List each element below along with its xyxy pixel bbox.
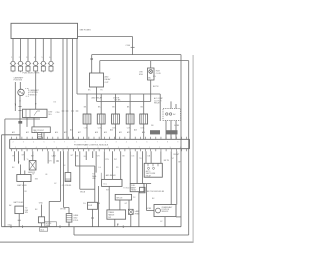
svg-text:1: 1 [149, 147, 150, 149]
wire D1 drop 2 [170, 121, 172, 140]
svg-text:6: 6 [147, 142, 148, 144]
svg-text:A23: A23 [134, 129, 137, 132]
wire coil 4 to PCM strip [129, 124, 131, 139]
wire B10 to B16 [119, 200, 121, 210]
svg-text:6: 6 [54, 142, 55, 144]
wire pin drop x176 [176, 151, 178, 204]
wire B1 output vertical drop [132, 37, 134, 55]
wire resistor feed jog [64, 207, 69, 209]
wire B13 bottom drop [164, 217, 166, 227]
wire coil 1 feed drop [86, 94, 88, 114]
wire B1 right output horizontal [78, 36, 133, 38]
wire pin drop x120 [120, 151, 122, 179]
pin label box dark 1 [150, 130, 160, 134]
svg-text:3: 3 [98, 147, 99, 149]
svg-text:9: 9 [177, 142, 178, 144]
EGR solenoid box B7 [88, 202, 98, 209]
wire into B13 left [147, 210, 155, 212]
distributor assembly B3 [23, 109, 48, 117]
bus tick 2 [22, 225, 24, 228]
powertrain control module connector strip [10, 139, 190, 148]
wire L2 horizontal bus [100, 60, 189, 62]
wire injector 3 feed [27, 38, 29, 61]
svg-text:GY/BK: GY/BK [174, 125, 180, 127]
svg-text:7: 7 [139, 147, 140, 149]
svg-text:1: 1 [95, 142, 96, 144]
wire coil 5 to PCM strip [143, 124, 145, 139]
wire horizontal y183 right [143, 183, 151, 185]
junction box B6 [38, 217, 44, 223]
wire pin drop x18 with arrow [18, 151, 20, 163]
wire pin drop x79 corner [79, 151, 81, 189]
wire sensor z1 feed [32, 151, 34, 160]
svg-text:YL: YL [27, 159, 29, 161]
svg-text:2: 2 [159, 147, 160, 149]
wire B15 bottom drop [23, 182, 25, 207]
svg-text:5: 5 [44, 142, 45, 144]
svg-text:FUEL: FUEL [131, 185, 135, 187]
svg-text:A12: A12 [26, 131, 29, 134]
wire B1 pin to PCM strip 1 [62, 38, 64, 139]
wire z2 feed [67, 151, 69, 172]
svg-text:6: 6 [128, 147, 129, 149]
wire corner drop x49 to bus [48, 201, 50, 226]
svg-text:GY/BK: GY/BK [146, 208, 152, 210]
svg-text:BK/TN: BK/TN [153, 86, 159, 88]
check engine lamp U2 [148, 68, 155, 80]
wire B4 to strip [43, 133, 45, 140]
wire left border junction horizontal [5, 118, 40, 120]
svg-text:A2: A2 [9, 204, 11, 207]
lower return line [74, 234, 189, 236]
connector tick B5 wire [18, 219, 21, 221]
wire sensor feed top [19, 82, 21, 89]
wire drop x94 to B7 [94, 166, 96, 202]
svg-text:RELAY: RELAY [105, 78, 112, 81]
svg-text:SW: SW [108, 217, 111, 219]
wire relay feed 1 [145, 151, 147, 163]
svg-text:SW: SW [25, 212, 28, 214]
wire injector 4 feed [35, 38, 37, 61]
camshaft position sensor G1 [18, 89, 24, 95]
svg-text:A22: A22 [127, 131, 130, 134]
svg-text:2: 2 [15, 147, 16, 149]
svg-text:C110: C110 [56, 112, 60, 114]
wire pin drop x130 [129, 151, 131, 183]
wire pin drop x92 [92, 151, 94, 158]
junction box B12 [140, 187, 146, 193]
svg-text:3: 3 [25, 147, 26, 149]
arrow at bus x117 [117, 224, 118, 227]
wire B17 bottom to bus [130, 214, 132, 226]
svg-text:7: 7 [64, 142, 65, 144]
wire horizontal y166 [75, 165, 94, 167]
wire pin drop x171 [170, 151, 172, 204]
fuel injector INJ2 [17, 57, 23, 71]
wire pin drop x137 [136, 151, 138, 183]
wire pin drop x60 long [60, 151, 62, 201]
wire lamp bottom drop [150, 80, 152, 101]
svg-text:7: 7 [157, 142, 158, 144]
wire B3 drop 2 [33, 118, 35, 127]
svg-text:8: 8 [167, 142, 168, 144]
svg-text:1: 1 [77, 147, 78, 149]
throttle position sensor Z1 [29, 161, 36, 171]
wire pin drop x48 to corner [47, 151, 49, 163]
svg-text:CLUS: CLUS [156, 73, 162, 75]
svg-text:4: 4 [34, 57, 35, 59]
svg-text:1: 1 [11, 57, 12, 59]
wire coil 1 to PCM strip [86, 124, 88, 139]
relay box B9 [130, 184, 144, 192]
map sensor box B15 [17, 175, 31, 182]
svg-text:4: 4 [36, 147, 37, 149]
dashed sensor boundary [25, 88, 28, 96]
oil pressure sensor Z2 [65, 173, 71, 182]
wire horizontal y189 [80, 188, 95, 190]
ignition module box B4 [32, 127, 50, 133]
PCM module box C1 [11, 23, 78, 38]
wire B1 pin to ASD feed node [76, 38, 78, 94]
wire injector 1 feed [12, 38, 14, 61]
wire B16 bottom to bus [114, 219, 116, 227]
wire pin drop x75 corner [74, 151, 76, 166]
wire relay feed 2 [150, 151, 152, 163]
svg-text:A14: A14 [55, 131, 58, 134]
svg-text:PPL: PPL [106, 159, 109, 161]
wire pin drop x14 [13, 151, 15, 161]
dashed connector D1 [163, 109, 181, 121]
connector tick sensor wire upper [19, 105, 22, 107]
svg-text:2: 2 [105, 142, 106, 144]
svg-text:9: 9 [85, 142, 86, 144]
wire D1 feed 2 [175, 104, 177, 109]
svg-text:PUMP: PUMP [131, 187, 136, 189]
svg-text:SENSOR: SENSOR [162, 211, 170, 213]
svg-text:A17: A17 [78, 131, 81, 134]
wire coil 3 feed drop [115, 94, 117, 114]
wire B1 pin to PCM strip 3 [72, 38, 74, 139]
svg-text:A18: A18 [95, 131, 98, 134]
svg-text:G101: G101 [40, 229, 44, 231]
svg-text:5: 5 [118, 147, 119, 149]
svg-text:ASD: ASD [105, 76, 110, 79]
wire B6 up stub [41, 205, 43, 217]
svg-text:OIL PRESS: OIL PRESS [62, 185, 72, 187]
ballast resistor R2 [38, 133, 42, 139]
svg-text:ENG: ENG [139, 74, 143, 76]
shift lamp B17 [128, 209, 133, 214]
svg-text:8: 8 [74, 142, 75, 144]
wire pin drop x24 sensor feed [23, 151, 25, 160]
wire B2 bottom drop [96, 87, 98, 101]
svg-text:BK PCM GROUND BK: BK PCM GROUND BK [147, 191, 165, 193]
fuel injector INJ1 [10, 57, 16, 71]
wire drop x146 lower [146, 184, 148, 211]
connector tick sensor wire [19, 110, 22, 112]
wire outer border horizontal [2, 134, 20, 136]
svg-text:GND: GND [39, 203, 44, 205]
wire B8 to B16 [108, 186, 110, 210]
svg-text:SENSOR: SENSOR [30, 94, 38, 96]
arrow sensor feed left [15, 104, 16, 106]
svg-text:A11: A11 [12, 131, 15, 134]
svg-text:SEE FUSES: SEE FUSES [80, 30, 92, 32]
fuel injector INJ4 [33, 57, 39, 71]
svg-text:POSITION: POSITION [162, 209, 170, 211]
ground bus line [2, 226, 181, 228]
wire sci return to bus [97, 186, 99, 227]
ignition coil T2 [97, 114, 105, 124]
svg-text:FUEL INJECTORS: FUEL INJECTORS [23, 73, 41, 75]
svg-text:A13: A13 [34, 131, 37, 134]
wire B13 to V1 [176, 216, 181, 218]
label text block bracket [92, 173, 101, 180]
splice S120 marks [91, 58, 93, 60]
transmission box B16 [107, 210, 126, 219]
pin label box dark 2 [166, 130, 178, 134]
injector bottom stubs [13, 71, 51, 72]
wire left inner border vertical [4, 119, 6, 227]
wire L3 coil feed bus [77, 93, 160, 95]
sensor ground resistor R1 [66, 214, 72, 223]
svg-text:5: 5 [42, 57, 43, 59]
fuel injector INJ3 [25, 57, 31, 71]
svg-text:6: 6 [56, 147, 57, 149]
data link connector box B8 [102, 179, 122, 186]
fuel injector INJ5 [40, 57, 46, 71]
svg-text:G100: G100 [8, 225, 12, 227]
wire coil 4 feed drop [129, 94, 131, 114]
wire L2 left drop [99, 61, 101, 73]
wire pin drop x96 [95, 151, 97, 172]
svg-text:RELAY: RELAY [154, 102, 161, 105]
svg-text:6: 6 [49, 57, 50, 59]
PCM strip pin ticks [12, 137, 187, 152]
svg-text:3: 3 [26, 57, 27, 59]
wire relay feed 3 [160, 151, 162, 163]
wire B7 bottom to bus [92, 209, 94, 226]
svg-text:7: 7 [67, 147, 68, 149]
svg-text:2: 2 [13, 142, 14, 144]
wire pin drop x63 [63, 151, 65, 207]
wire sensor bottom drop [19, 96, 21, 140]
wire pin drop x104 [103, 151, 105, 179]
wire V2 outer right vertical run [188, 61, 190, 235]
svg-text:MAP SENS: MAP SENS [17, 184, 27, 187]
wire pin drop x54 [53, 151, 55, 163]
wire D1 drop 1 [165, 121, 167, 140]
wire corner horizontal y201 [49, 200, 60, 202]
svg-text:POSITION: POSITION [14, 80, 23, 82]
wire coil 2 to PCM strip [100, 124, 102, 139]
battery feed splice box B5 [15, 206, 24, 214]
ignition coil T1 [83, 114, 91, 124]
svg-text:SHUTDOWN: SHUTDOWN [146, 173, 156, 175]
svg-text:FEED: FEED [135, 213, 140, 215]
label wire tag dark [18, 121, 22, 124]
wire B3 drop 1 [26, 118, 28, 127]
ASD sense box B2 [90, 73, 104, 87]
ignition coil T4 [126, 114, 134, 124]
wire L4 horizontal link [97, 100, 151, 102]
wire left outer border vertical [1, 135, 3, 227]
wire L1 left drop to splice [91, 55, 93, 73]
bus tick 3 [59, 225, 61, 228]
svg-text:2: 2 [87, 147, 88, 149]
wire coil 2 feed drop [100, 94, 102, 114]
wire B15 feed 2 [24, 171, 26, 175]
wire injector 2 feed [20, 38, 22, 61]
wire B5 bottom drop [18, 214, 20, 227]
svg-text:DG/OR: DG/OR [113, 98, 120, 100]
box B10 [115, 194, 131, 200]
svg-text:4: 4 [108, 147, 109, 149]
wire D1 feed 1 [170, 101, 172, 108]
wire coil 3 to PCM strip [115, 124, 117, 139]
wire to lamp B17 [128, 200, 130, 209]
wire V1 right vertical run [180, 55, 182, 227]
svg-text:BK TN: BK TN [164, 160, 170, 162]
connector tick B7 wire [91, 217, 94, 219]
wire B15 feed 1 [20, 165, 22, 175]
arrow sensor bottom [19, 100, 20, 102]
wire lamp top stub [150, 61, 152, 68]
arrow injector return [35, 103, 36, 105]
svg-text:4: 4 [33, 142, 34, 144]
svg-text:BATT FEED: BATT FEED [14, 201, 24, 204]
ignition coil T3 [112, 114, 120, 124]
wire pin drop x142 [142, 151, 144, 183]
wire injector 5 feed [42, 38, 44, 61]
ASD relay box B11 [144, 163, 162, 177]
wire pin drop x86 [85, 151, 87, 160]
svg-text:5: 5 [46, 147, 47, 149]
svg-text:ASD RELAY: ASD RELAY [106, 174, 117, 177]
svg-text:3: 3 [170, 147, 171, 149]
wire L3 right drop [159, 94, 161, 121]
label block left of R1 [45, 222, 57, 227]
bus tick 1 [10, 225, 12, 228]
svg-text:A21: A21 [119, 131, 122, 134]
svg-text:4: 4 [180, 147, 181, 149]
wire sensor feed left [14, 82, 16, 111]
wire coil 5 feed drop [143, 94, 145, 114]
svg-text:A16: A16 [70, 129, 73, 132]
wire L1 horizontal bus [92, 54, 181, 56]
svg-text:3: 3 [116, 142, 117, 144]
crankshaft position sensor box B13 [154, 205, 176, 217]
svg-text:POWERTRAIN CONTROL MODULE: POWERTRAIN CONTROL MODULE [74, 144, 109, 147]
wire injector return to distributor [35, 71, 37, 109]
svg-text:WT BK: WT BK [60, 209, 66, 211]
PCM strip pin numbers [13, 142, 181, 149]
fuel injector INJ6 [48, 57, 54, 71]
svg-text:A24: A24 [142, 131, 145, 134]
wire D1 drop 3 [175, 121, 177, 140]
svg-text:A19: A19 [104, 131, 107, 134]
svg-text:3: 3 [23, 142, 24, 144]
wire pin drop x112 [112, 151, 114, 179]
bus tick 4 [122, 225, 124, 228]
wire B1 pin to PCM strip 2 [66, 38, 68, 139]
page edge shadow vertical [192, 55, 194, 243]
page edge shadow horizontal bottom [0, 241, 194, 243]
svg-text:SPLICE: SPLICE [116, 197, 123, 199]
svg-text:A20: A20 [110, 129, 113, 132]
connector C104 tick [131, 46, 135, 48]
svg-text:2: 2 [19, 57, 20, 59]
svg-text:A15: A15 [64, 131, 67, 134]
svg-text:STUD: STUD [73, 220, 79, 222]
connector C110 ticks on harness wires [62, 110, 79, 112]
wire bus stub down x74 [73, 227, 75, 235]
wire B6 bottom stub [41, 223, 43, 227]
svg-text:C104: C104 [126, 45, 131, 47]
wire R1 bottom to bus [68, 222, 70, 227]
svg-text:4: 4 [126, 142, 127, 144]
svg-text:MIL: MIL [148, 78, 151, 80]
ignition coil T5 [140, 114, 148, 124]
svg-text:SPLICE: SPLICE [46, 223, 52, 225]
wire relay return to bus [138, 192, 140, 227]
bus splice box [40, 228, 48, 232]
svg-text:5: 5 [136, 142, 137, 144]
wire injector 6 feed [50, 38, 52, 61]
